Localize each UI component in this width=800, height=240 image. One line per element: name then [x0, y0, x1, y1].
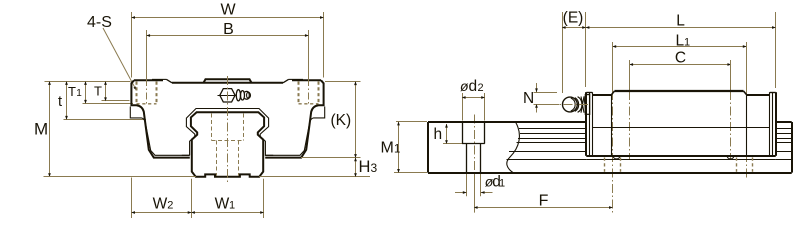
svg-text:2: 2	[167, 200, 173, 212]
block inner cavity outline	[182, 109, 273, 156]
svg-text:M: M	[34, 120, 48, 139]
wire M1 dimension	[396, 121, 427, 123]
seal top edge (thin, behind)	[152, 78, 167, 80]
wire T1 dimension	[83, 103, 134, 105]
svg-text:M: M	[381, 140, 394, 157]
block cross-section outer profile	[130, 79, 324, 157]
rail bolt hole (hidden, front view)	[212, 114, 244, 176]
svg-text:H: H	[359, 158, 371, 176]
svg-text:1: 1	[499, 178, 505, 190]
block bolt centerlines (side view)	[629, 60, 631, 91]
svg-text:4-S: 4-S	[87, 14, 112, 31]
svg-text:1: 1	[76, 88, 82, 99]
cap/body boundaries	[611, 95, 613, 156]
wire W dimension	[131, 12, 323, 78]
svg-text:F: F	[539, 193, 549, 210]
block bottom	[586, 155, 775, 157]
wire M dimension	[45, 81, 131, 83]
wire L dimension	[586, 12, 776, 88]
rail centerline (front view)	[227, 76, 229, 184]
mounting hole S (right, hidden)	[299, 82, 319, 104]
svg-text:(E): (E)	[563, 10, 584, 27]
svg-text:W: W	[220, 2, 236, 19]
svg-text:d: d	[469, 78, 478, 95]
end cap tops	[592, 94, 611, 96]
svg-text:C: C	[675, 50, 686, 67]
svg-text:3: 3	[371, 161, 378, 175]
svg-text:T: T	[68, 84, 76, 99]
wire phi-d1 dimension	[455, 174, 493, 196]
svg-text:2: 2	[478, 82, 484, 94]
wire L1 dimension	[613, 46, 747, 48]
rail cross-section profile	[191, 112, 264, 177]
rail counterbore (section)	[462, 122, 485, 173]
svg-text:h: h	[434, 126, 443, 143]
seal contour behind (left)	[130, 107, 190, 156]
svg-text:L: L	[676, 13, 685, 30]
datum line at rail bottom	[44, 176, 196, 178]
wire B dimension	[147, 30, 309, 79]
wire T dimension	[102, 100, 130, 102]
wire N dimension	[534, 83, 560, 113]
centerline hole right	[308, 79, 310, 105]
svg-text:B: B	[223, 21, 234, 38]
svg-text:t: t	[58, 94, 62, 110]
wire (K) dimension	[325, 81, 361, 83]
svg-text:1: 1	[229, 200, 235, 212]
wire h dimension	[443, 143, 462, 145]
wire W1 dimension	[191, 179, 263, 218]
svg-text:W: W	[153, 196, 168, 213]
svg-text:1: 1	[394, 144, 400, 156]
nipple boss on top	[204, 79, 252, 83]
grease nipple (front view)	[218, 89, 251, 102]
seal tops	[586, 92, 592, 94]
wire F dimension	[474, 174, 476, 213]
body top	[615, 90, 744, 92]
hidden rail holes under block	[605, 158, 753, 172]
rail groove lines (side)	[507, 129, 792, 160]
seal contour behind (right)	[265, 107, 325, 156]
grease notches at bottom	[613, 156, 620, 159]
centerline hole left	[146, 79, 148, 105]
wire W2 dimension	[131, 178, 191, 219]
wire t dimension	[64, 119, 147, 121]
svg-text:W: W	[215, 196, 230, 213]
wire (E) dimension	[562, 12, 586, 93]
grease nipple (side view)	[563, 95, 590, 115]
wire phi-d2 dimension	[462, 93, 485, 121]
mounting hole S (left, hidden)	[137, 82, 157, 104]
rail hole centerlines (side view)	[612, 42, 614, 91]
nipple centerline	[548, 104, 590, 106]
end faces / seal plates	[585, 92, 587, 156]
svg-text:(K): (K)	[331, 112, 352, 129]
svg-text:T: T	[94, 84, 102, 99]
wire H3 dimension	[355, 158, 357, 177]
svg-text:N: N	[523, 90, 534, 107]
wire C dimension	[630, 64, 732, 66]
section break line	[507, 122, 520, 173]
rail hole centerline (section)	[474, 115, 476, 175]
rail side view outline	[428, 122, 792, 173]
svg-text:1: 1	[684, 37, 690, 49]
mid line	[592, 127, 770, 129]
LM block side view	[586, 91, 776, 160]
